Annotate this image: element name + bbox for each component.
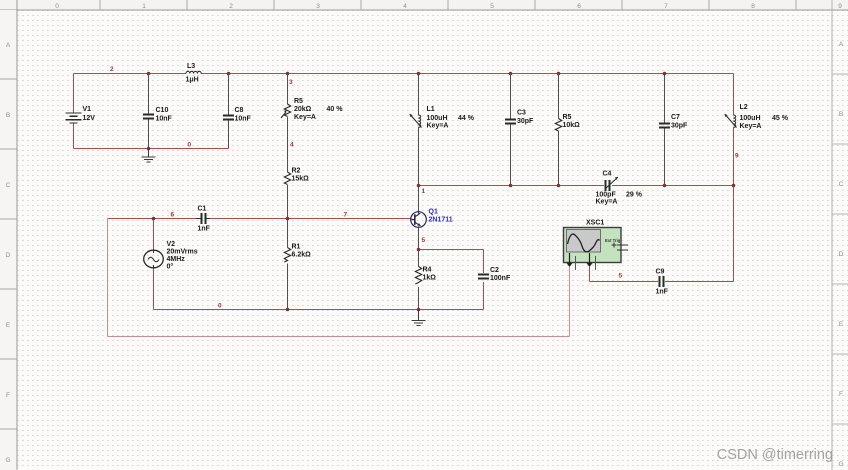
svg-text:F: F — [839, 391, 843, 398]
svg-text:100pF: 100pF — [596, 192, 617, 199]
svg-text:R4: R4 — [423, 267, 432, 274]
svg-text:R5: R5 — [563, 114, 572, 121]
svg-text:5: 5 — [490, 3, 494, 10]
svg-text:10nF: 10nF — [156, 116, 173, 123]
svg-text:4MHz: 4MHz — [167, 256, 186, 263]
svg-text:1: 1 — [142, 3, 146, 10]
svg-text:Key=A: Key=A — [596, 199, 618, 206]
node dot battery loop C10 — [147, 147, 151, 151]
svg-text:C1: C1 — [198, 206, 207, 213]
svg-text:5: 5 — [619, 273, 623, 280]
svg-text:L1: L1 — [427, 106, 435, 113]
svg-text:F: F — [6, 392, 10, 399]
svg-text:A: A — [839, 41, 844, 48]
capacitor C2 — [478, 275, 489, 279]
svg-text:1kΩ: 1kΩ — [423, 275, 437, 282]
node dot bottom R4 — [417, 308, 421, 312]
svg-text:1nF: 1nF — [198, 226, 211, 233]
resistor R4 — [415, 267, 421, 285]
svg-text:C9: C9 — [656, 269, 665, 276]
svg-text:29 %: 29 % — [626, 192, 643, 199]
wire emitter to C2 — [419, 250, 484, 310]
svg-text:Ext Trig: Ext Trig — [605, 238, 621, 243]
svg-text:V1: V1 — [83, 106, 92, 113]
svg-text:2: 2 — [229, 3, 233, 10]
svg-text:D: D — [839, 251, 844, 258]
capacitor C1 — [202, 213, 206, 224]
svg-text:45 %: 45 % — [772, 115, 789, 122]
wire scope A lead — [569, 267, 571, 337]
svg-text:2N1711: 2N1711 — [429, 217, 453, 224]
svg-text:6: 6 — [577, 3, 581, 10]
svg-text:40 %: 40 % — [327, 106, 344, 113]
svg-text:1: 1 — [422, 188, 426, 195]
node dot collector net1 — [417, 184, 421, 188]
svg-text:0: 0 — [218, 303, 222, 310]
svg-text:7: 7 — [344, 212, 348, 219]
svg-text:9: 9 — [838, 3, 842, 10]
capacitor C3 — [505, 120, 516, 124]
svg-text:3: 3 — [316, 3, 320, 10]
component lead columns (dark) — [149, 74, 665, 310]
svg-text:B: B — [839, 111, 843, 118]
wire R4 leads — [418, 250, 420, 310]
svg-text:4: 4 — [290, 142, 294, 149]
svg-text:30pF: 30pF — [671, 123, 688, 130]
svg-text:4: 4 — [403, 3, 407, 10]
svg-text:G: G — [5, 457, 10, 464]
svg-text:100uH: 100uH — [740, 115, 761, 122]
svg-text:Key=A: Key=A — [740, 123, 762, 130]
svg-text:8: 8 — [751, 3, 755, 10]
inductor L3 — [186, 71, 201, 73]
svg-text:2: 2 — [110, 66, 114, 73]
inductor L1 — [418, 115, 420, 127]
svg-text:100nF: 100nF — [490, 275, 511, 282]
wire node 1 horizontal — [419, 185, 734, 187]
svg-text:B: B — [6, 112, 10, 119]
svg-text:6.2kΩ: 6.2kΩ — [292, 252, 312, 259]
wire R1 leads — [287, 219, 289, 310]
svg-text:3: 3 — [289, 79, 293, 86]
svg-text:0°: 0° — [167, 263, 174, 271]
resistor R1 — [284, 248, 290, 263]
svg-text:C3: C3 — [517, 110, 526, 117]
node dot top R5b — [557, 72, 561, 76]
node dot bottom R1 — [286, 308, 290, 312]
wire V2 top lead — [153, 219, 155, 251]
svg-text:0: 0 — [55, 3, 59, 10]
wire C3 leads — [510, 74, 512, 186]
capacitor C7 — [659, 124, 670, 128]
wire base net 7 — [108, 218, 412, 220]
svg-text:C: C — [839, 181, 844, 188]
ground (battery loop) — [142, 149, 156, 163]
svg-text:5: 5 — [422, 237, 426, 244]
svg-text:L2: L2 — [740, 104, 748, 111]
resistor R5b — [555, 119, 561, 132]
svg-text:C4: C4 — [603, 171, 612, 178]
wire right vertical net 9 — [733, 74, 735, 282]
node dot top R5 pot — [286, 72, 290, 76]
node dot net1 C7 — [663, 184, 667, 188]
inductor L2 — [733, 115, 735, 127]
svg-text:30pF: 30pF — [517, 118, 534, 125]
svg-text:20kΩ: 20kΩ — [294, 106, 312, 113]
wire bottom net 0 — [154, 309, 484, 311]
svg-text:C7: C7 — [671, 114, 680, 121]
potentiometer R5 — [284, 104, 290, 117]
node dot base R2R1 — [286, 217, 290, 221]
capacitor C9 — [660, 276, 664, 287]
svg-text:R2: R2 — [292, 168, 301, 175]
svg-text:9: 9 — [735, 153, 739, 160]
left ruler strip — [0, 0, 17, 470]
node dot net1 right — [732, 184, 736, 188]
node dot top L1 — [417, 72, 421, 76]
svg-text:10kΩ: 10kΩ — [563, 122, 581, 129]
svg-text:C: C — [6, 182, 11, 189]
wire C8 bottom riser — [228, 120, 230, 149]
svg-text:C8: C8 — [235, 107, 244, 114]
wire R5 pot column — [287, 74, 289, 219]
source V2 — [144, 250, 164, 268]
svg-text:L3: L3 — [187, 63, 195, 70]
svg-text:7: 7 — [664, 3, 668, 10]
svg-text:E: E — [6, 322, 11, 329]
node dot top C8 — [227, 72, 231, 76]
wire C7 leads — [664, 74, 666, 186]
transistor Q1 — [411, 212, 427, 228]
capacitor C10 — [143, 115, 154, 119]
wire battery loop bottom — [74, 148, 229, 150]
node dot base V2 — [152, 217, 156, 221]
svg-text:20mVrms: 20mVrms — [167, 249, 198, 256]
svg-text:C10: C10 — [156, 107, 169, 114]
wire outer loop bottom — [108, 336, 570, 338]
svg-text:Key=A: Key=A — [427, 123, 449, 130]
svg-text:R1: R1 — [292, 244, 301, 251]
node dot net1 R5b — [557, 184, 561, 188]
wire outer loop left vertical — [107, 219, 109, 337]
svg-text:1nF: 1nF — [656, 289, 669, 296]
wire V2 bottom lead — [153, 268, 155, 310]
node dot top C10 — [147, 72, 151, 76]
svg-text:D: D — [6, 252, 11, 259]
capacitor C8 — [223, 116, 234, 120]
top ruler strip — [0, 0, 848, 10]
oscilloscope XSC1 — [564, 228, 629, 271]
wire V1 bottom lead — [73, 123, 75, 149]
right ruler strip — [832, 0, 848, 470]
ground (emitter) — [412, 310, 426, 326]
wire Q1 emitter lead — [418, 227, 420, 250]
svg-text:XSC1: XSC1 — [586, 220, 604, 227]
node dot emitter — [417, 248, 421, 252]
variable capacitor C4 — [606, 180, 610, 191]
wire V1 top lead — [73, 74, 75, 113]
svg-text:R5: R5 — [294, 98, 303, 105]
wire scope B lead — [589, 267, 591, 282]
svg-text:10nF: 10nF — [235, 116, 252, 123]
svg-text:G: G — [838, 461, 843, 468]
svg-text:15kΩ: 15kΩ — [292, 176, 310, 183]
wire R5b leads — [558, 74, 560, 186]
svg-text:V2: V2 — [167, 241, 176, 248]
svg-text:Key=A: Key=A — [294, 114, 316, 121]
battery V1 — [66, 113, 82, 123]
node dot top C7 — [663, 72, 667, 76]
svg-text:1μH: 1μH — [186, 77, 199, 84]
svg-text:6: 6 — [171, 212, 175, 219]
node dot net1 C3 — [509, 184, 513, 188]
svg-text:C2: C2 — [490, 267, 499, 274]
node dot top C3 — [509, 72, 513, 76]
resistor R2 — [284, 172, 290, 185]
wire top rail net 3 — [74, 73, 734, 75]
wire C9 to right vertical — [590, 281, 734, 283]
wire L1 column — [418, 74, 420, 213]
svg-text:CSDN @timerring: CSDN @timerring — [717, 447, 833, 463]
svg-text:12V: 12V — [83, 115, 96, 122]
svg-text:E: E — [839, 321, 844, 328]
wire C10 leads — [148, 74, 150, 149]
svg-text:0: 0 — [188, 142, 192, 149]
wire C8 leads — [228, 74, 230, 149]
svg-text:44 %: 44 % — [458, 115, 475, 122]
svg-text:A: A — [6, 42, 11, 49]
svg-text:100uH: 100uH — [427, 115, 448, 122]
svg-text:Q1: Q1 — [429, 209, 438, 216]
